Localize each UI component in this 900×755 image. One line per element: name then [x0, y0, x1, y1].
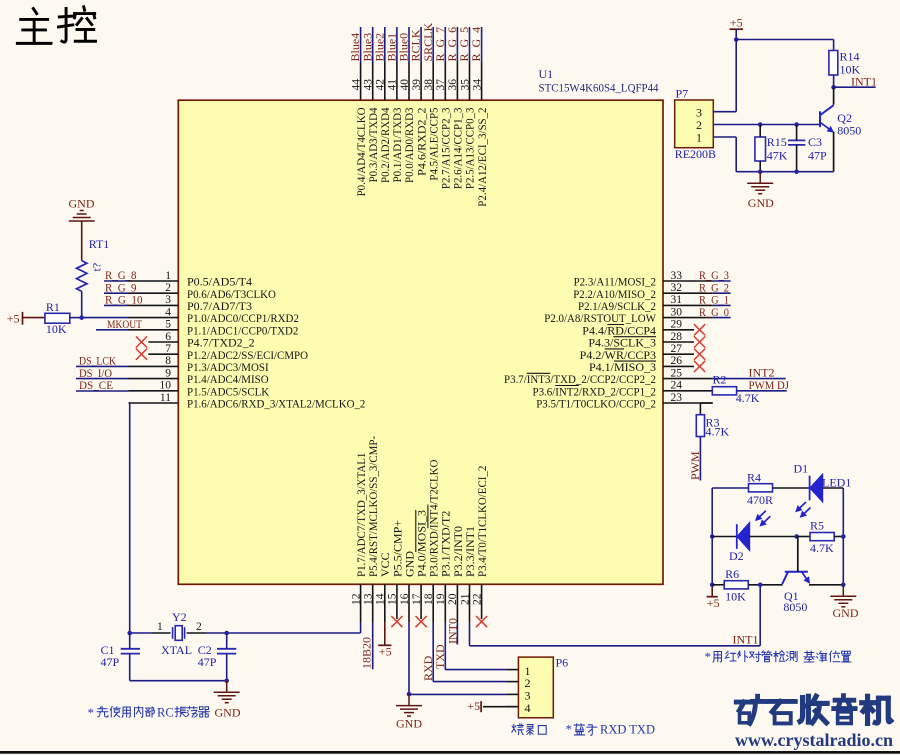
svg-text:R14: R14 — [840, 50, 860, 64]
P6 pin 3 stub — [506, 693, 518, 695]
wire R_G_10 — [104, 304, 129, 306]
svg-text:18: 18 — [423, 593, 435, 605]
svg-text:TXD: TXD — [433, 644, 447, 669]
svg-text:+5: +5 — [467, 699, 480, 713]
svg-text:8: 8 — [165, 355, 171, 367]
svg-text:31: 31 — [671, 294, 683, 306]
no-connect X pin 22 — [476, 616, 487, 627]
resistor R1 — [45, 313, 70, 323]
pin 18 stub — [432, 584, 434, 622]
resistor R6 — [724, 581, 748, 589]
junction R15 top — [758, 122, 763, 127]
svg-text:19: 19 — [435, 593, 447, 605]
svg-text:P1.6/ADC6/RXD_3/XTAL2/MCLKO_2: P1.6/ADC6/RXD_3/XTAL2/MCLKO_2 — [187, 397, 365, 411]
pin 39 stub — [420, 62, 422, 100]
capacitor C3 — [788, 140, 805, 145]
svg-text:R_G_0: R_G_0 — [699, 305, 729, 319]
svg-text:5: 5 — [165, 319, 171, 331]
pin 6 stub — [148, 341, 178, 343]
pin 28 stub — [663, 341, 694, 343]
ground GND above RT1 inverted — [69, 211, 95, 222]
wire R_G_1 — [713, 304, 731, 306]
svg-text:23: 23 — [671, 392, 683, 404]
svg-text:24: 24 — [671, 380, 683, 392]
svg-text:RE200B: RE200B — [675, 147, 716, 161]
wire R3 to PWM — [699, 437, 701, 481]
wire DS_I/O — [76, 378, 129, 380]
svg-text:P2.4/A12/ECI_3/SS_2: P2.4/A12/ECI_3/SS_2 — [475, 108, 489, 207]
pin 27 stub — [663, 353, 694, 355]
junction C3 top — [794, 122, 799, 127]
junction left rail D2 — [710, 534, 715, 539]
wire node to R5 — [797, 536, 810, 538]
thermistor RT1 zigzag — [77, 261, 87, 292]
pin 5 stub — [129, 329, 179, 331]
svg-text:D1: D1 — [794, 461, 809, 475]
wire P7 pin1 — [713, 136, 736, 138]
svg-text:39: 39 — [411, 79, 423, 91]
svg-text:+5: +5 — [7, 311, 20, 325]
no-connect X pin 15 — [391, 616, 402, 627]
svg-text:RXD TXD: RXD TXD — [600, 723, 655, 737]
pin 10 stub — [129, 390, 179, 392]
connector P6 — [518, 657, 553, 718]
svg-text:26: 26 — [671, 355, 683, 367]
svg-text:INT0: INT0 — [445, 618, 459, 644]
wire pin18 RXD to P6.2 — [432, 622, 434, 682]
svg-text:20: 20 — [447, 593, 459, 605]
svg-text:1: 1 — [157, 621, 163, 633]
resistor R15 — [755, 137, 766, 161]
svg-text:3: 3 — [165, 294, 171, 306]
resistor R14 — [829, 51, 838, 76]
svg-text:6: 6 — [165, 331, 171, 343]
pin 1 stub — [129, 280, 179, 282]
pin 40 stub — [408, 62, 410, 100]
svg-text:7: 7 — [165, 343, 171, 355]
svg-text:10K: 10K — [46, 322, 67, 336]
wire D2 left — [712, 536, 736, 538]
svg-text:10: 10 — [160, 380, 172, 392]
no-connect X pin 27 — [694, 349, 705, 360]
svg-text:PWM DJ: PWM DJ — [749, 378, 790, 392]
transistor Q1 8050 — [782, 572, 808, 584]
pin 25 stub — [663, 378, 713, 380]
pin 9 stub — [129, 378, 179, 380]
resistor R3 — [696, 415, 704, 437]
pin 34 stub — [481, 62, 483, 100]
svg-text:22: 22 — [471, 593, 483, 605]
junction right rail gnd — [841, 583, 846, 588]
wire +5 down to P7 pin3 — [735, 40, 737, 112]
svg-text:P3.4/T0/T1CLKO/ECI_2: P3.4/T0/T1CLKO/ECI_2 — [475, 466, 489, 577]
svg-text:42: 42 — [375, 79, 387, 91]
svg-text:+5: +5 — [707, 596, 720, 610]
pin 15 stub — [396, 584, 398, 619]
svg-text:www.crystalradio.cn: www.crystalradio.cn — [735, 730, 893, 750]
pin 32 stub — [663, 292, 713, 294]
svg-text:R_G_4: R_G_4 — [469, 27, 483, 62]
svg-text:t?: t? — [90, 263, 104, 272]
pin 34 wire — [481, 27, 483, 62]
power +5 P6 — [480, 701, 482, 712]
svg-text:16: 16 — [399, 593, 411, 605]
pin 37 wire — [444, 27, 446, 62]
svg-text:18B20: 18B20 — [360, 637, 374, 669]
pin 31 stub — [663, 304, 713, 306]
op-amp U1 IC body STC15W4K60S4_LQFP44 — [178, 100, 663, 584]
wire caps bottom rail — [130, 680, 227, 682]
svg-text:43: 43 — [363, 79, 375, 91]
wire +5 to R14 — [736, 39, 833, 41]
diode D1 LED1 — [810, 475, 823, 501]
wire top loop — [712, 487, 748, 489]
svg-text:47P: 47P — [808, 148, 827, 162]
pin 22 stub — [481, 584, 483, 619]
title 主控 — [17, 7, 95, 44]
svg-text:38: 38 — [423, 79, 435, 91]
svg-text:1: 1 — [696, 130, 702, 144]
svg-text:R15: R15 — [767, 135, 787, 149]
note label 烧录口 programming port — [512, 724, 546, 735]
junction pin16 gnd — [407, 692, 412, 697]
pin 36 stub — [456, 62, 458, 100]
svg-text:GND: GND — [215, 706, 241, 720]
no-connect X pin 28 — [694, 336, 705, 347]
capacitor C2 — [217, 649, 236, 654]
svg-text:9: 9 — [165, 367, 171, 379]
pin 20 stub — [456, 584, 458, 622]
pin 4 stub — [129, 317, 179, 319]
svg-text:47P: 47P — [101, 655, 120, 669]
svg-text:28: 28 — [671, 331, 683, 343]
svg-text:1: 1 — [165, 270, 171, 282]
junction right rail R5 — [841, 534, 846, 539]
svg-text:RT1: RT1 — [89, 237, 110, 251]
P6 pin 1 stub — [506, 669, 518, 671]
junction rail R15 — [758, 169, 763, 174]
svg-text:4.7K: 4.7K — [706, 424, 730, 438]
wire pin21 INT1 net — [469, 622, 471, 646]
pin 35 stub — [469, 62, 471, 100]
svg-text:37: 37 — [435, 79, 447, 91]
svg-text:P6: P6 — [556, 656, 569, 670]
svg-text:34: 34 — [471, 79, 483, 91]
ground GND crystal — [214, 681, 240, 703]
pin 41 stub — [396, 62, 398, 100]
pin 42 stub — [384, 62, 386, 100]
pin 19 stub — [444, 584, 446, 622]
D2 receive arrows — [756, 511, 766, 520]
pin 16 stub — [408, 584, 410, 622]
svg-text:R6: R6 — [725, 567, 739, 581]
ground GND LED block — [830, 585, 856, 607]
svg-text:R_G_10: R_G_10 — [105, 293, 143, 307]
svg-text:47K: 47K — [767, 148, 788, 162]
pin 37 stub — [444, 62, 446, 100]
wire pin4 from R1 junction — [82, 317, 129, 319]
pin 3 stub — [129, 304, 179, 306]
junction caps gnd — [224, 678, 229, 683]
wire R_G_8 — [104, 280, 129, 282]
resistor R2 — [712, 387, 736, 395]
no-connect X pin 17 — [416, 616, 427, 627]
pin 36 wire — [456, 27, 458, 62]
svg-text:R1: R1 — [46, 300, 60, 314]
svg-text:GND: GND — [748, 196, 774, 210]
pin 2 stub — [129, 292, 179, 294]
svg-text:2: 2 — [165, 282, 171, 294]
wire DS_LCK — [76, 365, 129, 367]
wire R6 left — [712, 584, 724, 586]
wire R_G_3 — [713, 280, 731, 282]
wire gnd to P6 pin3 — [409, 693, 506, 695]
svg-text:+5: +5 — [730, 15, 743, 29]
svg-text:2: 2 — [196, 621, 202, 633]
svg-text:STC15W4K60S4_LQFP44: STC15W4K60S4_LQFP44 — [539, 81, 659, 95]
pin 44 wire — [360, 27, 362, 62]
diode D2 photodiode — [737, 523, 750, 549]
svg-text:Y2: Y2 — [172, 610, 187, 624]
wire P7 pin3 — [713, 111, 736, 113]
junction R1 RT1 pin4 — [79, 315, 84, 320]
pin 24 stub — [663, 390, 713, 392]
pin 41 wire — [396, 27, 398, 62]
pin 26 stub — [663, 365, 694, 367]
pin 43 wire — [372, 27, 374, 62]
pin 35 wire — [469, 27, 471, 62]
wire Q2 emitter rail — [736, 171, 833, 173]
pin 12 stub — [360, 584, 362, 622]
svg-text:U1: U1 — [539, 67, 554, 81]
no-connect X pin 26 — [694, 361, 705, 372]
junction INT1 — [831, 85, 836, 90]
wire D2 to R5 node — [749, 536, 796, 538]
svg-text:30: 30 — [671, 306, 683, 318]
wire pin19 TXD to P6.1 — [444, 622, 446, 670]
wire R1 to pin4 — [70, 317, 82, 319]
svg-text:+5: +5 — [379, 644, 392, 658]
svg-text:4.7K: 4.7K — [810, 541, 834, 555]
connector P7 — [675, 100, 714, 148]
pin 39 wire — [420, 27, 422, 62]
svg-text:36: 36 — [447, 79, 459, 91]
svg-text:INT1: INT1 — [851, 74, 877, 88]
svg-text:47P: 47P — [198, 655, 217, 669]
svg-text:12: 12 — [350, 593, 362, 605]
wire pin23 down to R3 — [700, 402, 712, 404]
junction +5 top — [734, 37, 739, 42]
junction crystal right — [224, 631, 229, 636]
pin 14 stub — [384, 584, 386, 622]
sheet bottom border — [0, 751, 900, 754]
P6 pin 4 stub — [506, 706, 518, 708]
svg-text:27: 27 — [671, 343, 683, 355]
svg-text:4: 4 — [165, 306, 171, 318]
wire R6 to Q1 node — [748, 584, 782, 586]
svg-text:17: 17 — [411, 593, 423, 605]
D1 emission arrows — [797, 502, 807, 511]
svg-text:4.7K: 4.7K — [736, 391, 760, 405]
wire MKOUT — [96, 329, 129, 331]
pin 43 stub — [372, 62, 374, 100]
wire R_G_2 — [713, 292, 731, 294]
wire R_G_9 — [104, 292, 129, 294]
svg-text:29: 29 — [671, 319, 683, 331]
pin 38 wire — [432, 27, 434, 62]
wire pin13 18B20 — [372, 622, 374, 669]
svg-text:14: 14 — [375, 593, 387, 605]
svg-text:INT1: INT1 — [733, 632, 759, 646]
wire D1 to right rail — [822, 487, 843, 489]
svg-text:MKOUT: MKOUT — [107, 317, 143, 331]
junction rail C3 — [794, 169, 799, 174]
wire pin20 INT0 — [456, 622, 458, 645]
svg-text:XTAL: XTAL — [161, 643, 192, 657]
power +5 pin14 — [384, 622, 386, 645]
pin 17 stub — [420, 584, 422, 619]
wire +5 to R1 — [23, 317, 45, 319]
svg-text:15: 15 — [387, 593, 399, 605]
no-connect X pin 29 — [694, 324, 705, 335]
resistor R5 — [810, 533, 834, 541]
wire R14 to INT1 node — [833, 75, 835, 87]
wire right rail — [842, 488, 844, 585]
wire Q1 emitter to gnd — [809, 584, 843, 586]
pin 13 stub — [372, 584, 374, 622]
svg-text:13: 13 — [363, 593, 375, 605]
pin 30 stub — [663, 317, 713, 319]
svg-text:RC: RC — [157, 706, 174, 720]
svg-text:35: 35 — [459, 79, 471, 91]
svg-text:C3: C3 — [808, 135, 822, 149]
wire GND to RT1 — [81, 221, 83, 261]
svg-text:33: 33 — [671, 270, 683, 282]
svg-text:8050: 8050 — [837, 123, 861, 137]
svg-text:*: * — [705, 649, 712, 664]
wire R4 to D1 — [773, 487, 809, 489]
svg-text:21: 21 — [459, 593, 471, 605]
pin 33 stub — [663, 280, 713, 282]
svg-text:DS_CE: DS_CE — [79, 378, 113, 392]
svg-text:44: 44 — [350, 79, 362, 91]
svg-text:25: 25 — [671, 367, 683, 379]
wire INT2 pin25 — [713, 378, 786, 380]
wire RT1 to junction — [81, 291, 83, 317]
svg-text:11: 11 — [160, 392, 171, 404]
svg-text:GND: GND — [69, 197, 95, 211]
svg-text:8050: 8050 — [783, 600, 807, 614]
svg-text:P3.5/T1/T0CLKO/CCP0_2: P3.5/T1/T0CLKO/CCP0_2 — [536, 397, 656, 411]
wire +5 to P6 pin4 — [483, 706, 518, 708]
junction crystal left — [127, 631, 132, 636]
pin 8 stub — [129, 365, 179, 367]
svg-text:PWM: PWM — [688, 451, 702, 480]
wire pin12 to crystal — [360, 622, 362, 633]
logo 矿石收音机 crystalradio — [736, 696, 891, 724]
transistor Q2 8050 — [820, 105, 834, 127]
wire crystal row — [130, 632, 152, 634]
pin 21 stub — [469, 584, 471, 622]
no-connect X pin 6 — [136, 336, 147, 347]
P6 pin 2 stub — [506, 681, 518, 683]
pin 42 wire — [384, 27, 386, 62]
svg-text:*: * — [566, 722, 573, 737]
pin 7 stub — [148, 353, 178, 355]
svg-text:470R: 470R — [747, 493, 773, 507]
ground GND pin16 — [396, 694, 422, 716]
wire DS_CE — [76, 390, 129, 392]
svg-text:4: 4 — [525, 701, 531, 715]
svg-text:P7: P7 — [676, 87, 689, 101]
svg-text:41: 41 — [387, 79, 399, 91]
svg-text:R5: R5 — [810, 519, 824, 533]
pin 29 stub — [663, 329, 694, 331]
junction R6 INT1 — [758, 583, 763, 588]
pin 38 stub — [432, 62, 434, 100]
wire INT1 — [834, 86, 876, 88]
junction left rail R6 — [710, 583, 715, 588]
capacitor C1 — [121, 649, 140, 654]
no-connect X pin 7 — [136, 349, 147, 360]
svg-text:GND: GND — [396, 716, 422, 730]
pin 23 stub — [663, 402, 713, 404]
svg-text:R2: R2 — [713, 373, 727, 387]
svg-text:40: 40 — [399, 79, 411, 91]
svg-text:GND: GND — [833, 606, 859, 620]
ground GND P7 circuit — [747, 172, 773, 194]
pin 44 stub — [360, 62, 362, 100]
power +5 LED block — [711, 585, 713, 597]
crystal Y2 — [173, 626, 185, 641]
wire pin16 to GND — [408, 622, 410, 694]
svg-text:10K: 10K — [725, 590, 746, 604]
svg-text:*: * — [88, 705, 95, 720]
pin 40 wire — [408, 27, 410, 62]
svg-text:D2: D2 — [729, 549, 744, 563]
svg-text:R4: R4 — [747, 470, 761, 484]
wire P7 pin2 to Q2 base — [713, 124, 820, 126]
wire PWM DJ pin24 — [737, 390, 787, 392]
wire R_G_0 — [713, 317, 731, 319]
resistor R4 — [749, 484, 773, 492]
pin 11 stub — [129, 402, 179, 404]
wire pin11 to crystal net — [129, 403, 131, 633]
wire R5 to right rail — [834, 536, 843, 538]
svg-text:32: 32 — [671, 282, 683, 294]
junction D2 R5 Q1 — [794, 534, 799, 539]
